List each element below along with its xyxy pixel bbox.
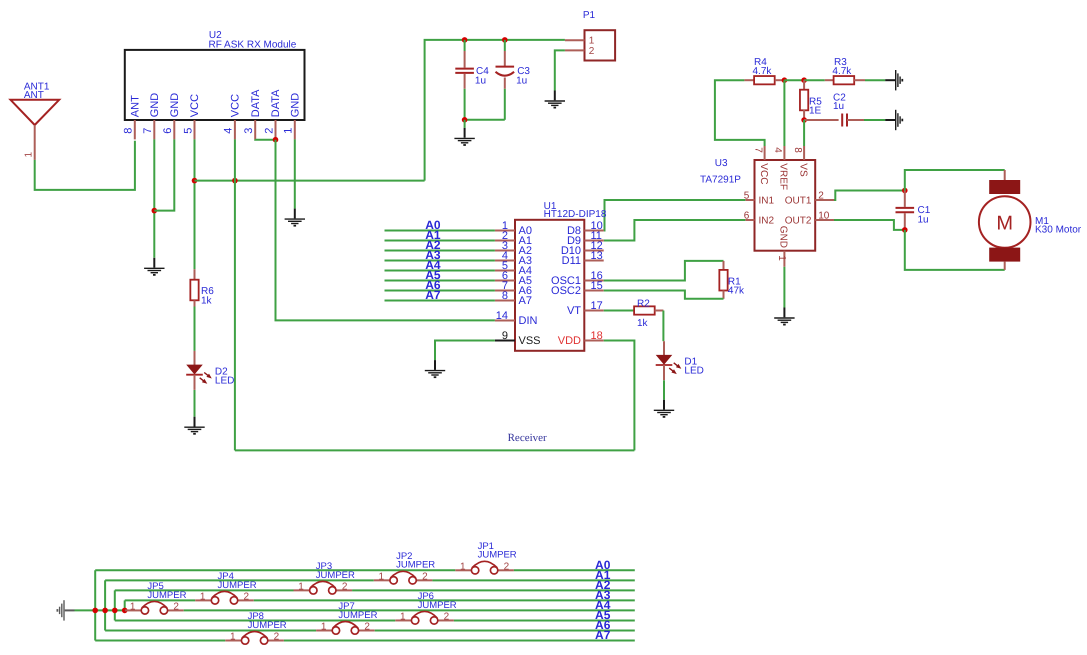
- U1 pin 3 A2: [495, 250, 515, 252]
- junction DATA: [273, 137, 279, 143]
- junction C4 top: [462, 37, 468, 43]
- svg-text:R2: R2: [637, 299, 650, 310]
- wire net A5 feed: [385, 280, 495, 282]
- svg-text:2: 2: [422, 571, 428, 582]
- wire left vertical A3-bus: [124, 600, 126, 610]
- U1 pin 2 A1: [495, 240, 515, 242]
- wire VCC rail: [195, 180, 425, 182]
- U1 pin 17 VT: [584, 310, 603, 312]
- U1 pin 6 A5: [495, 280, 515, 282]
- svg-text:VREF: VREF: [778, 163, 789, 190]
- wire C3 bottom to C4: [465, 119, 505, 121]
- svg-text:VS: VS: [797, 163, 808, 177]
- svg-text:13: 13: [591, 250, 603, 262]
- wire A4 right segment: [184, 609, 635, 611]
- svg-text:DATA: DATA: [270, 89, 282, 117]
- svg-text:JUMPER: JUMPER: [248, 620, 287, 631]
- svg-text:4: 4: [772, 147, 783, 153]
- svg-text:RF ASK RX Module: RF ASK RX Module: [209, 40, 297, 51]
- ground D1: [654, 400, 674, 417]
- wire jumper ground bus: [75, 609, 125, 611]
- U2 pin 3 DATA: [254, 120, 256, 139]
- wire VCC pin4 down: [234, 139, 236, 450]
- wire caps to ground: [464, 120, 466, 128]
- U1 pin 12 D10: [584, 250, 603, 252]
- wire A3 left segment: [125, 599, 196, 601]
- U3 pin 4 VREF (top): [783, 146, 785, 160]
- svg-text:JUMPER: JUMPER: [396, 560, 435, 571]
- svg-text:8: 8: [502, 290, 508, 302]
- ground jumper bus (left): [57, 600, 74, 620]
- svg-text:JUMPER: JUMPER: [147, 590, 186, 601]
- U1 pin 13 D11: [584, 260, 603, 262]
- resistor R2: [633, 310, 636, 312]
- junction pin7/pin6: [152, 208, 158, 214]
- svg-text:VCC: VCC: [758, 163, 769, 184]
- junction C3 top: [502, 37, 508, 43]
- resistor R1: [723, 261, 725, 270]
- wire A5 right segment: [454, 619, 635, 621]
- junction bus: [102, 608, 108, 614]
- svg-text:VCC: VCC: [230, 94, 242, 117]
- U3 pin 5 IN1: [745, 199, 754, 201]
- capacitor C2: [804, 119, 839, 121]
- ground D2: [184, 417, 204, 434]
- U1 pin 10 D8: [584, 230, 603, 232]
- U2 pin 8 ANT: [134, 120, 136, 139]
- svg-text:9: 9: [502, 330, 508, 342]
- U2 pin 4 VCC: [234, 120, 236, 139]
- U1 pin 14 DIN: [495, 320, 515, 322]
- connector P1 box: [585, 30, 616, 60]
- wire D9 to IN2: [604, 220, 746, 241]
- wire D2 to ground: [194, 390, 196, 417]
- U1 pin 11 D9: [584, 240, 603, 242]
- svg-text:OUT1: OUT1: [785, 196, 812, 207]
- svg-text:K30 Motor: K30 Motor: [1035, 225, 1082, 236]
- P1 pin 2: [565, 49, 585, 51]
- resistor R3: [825, 79, 834, 81]
- svg-text:10: 10: [818, 211, 830, 222]
- svg-text:ANT: ANT: [129, 95, 141, 117]
- svg-text:1u: 1u: [516, 75, 527, 86]
- U1 pin 16 OSC1: [584, 280, 603, 282]
- svg-text:D11: D11: [562, 255, 581, 267]
- resistor R6: [194, 269, 196, 280]
- svg-text:1: 1: [379, 571, 385, 582]
- svg-text:2: 2: [364, 621, 370, 632]
- svg-text:2: 2: [173, 601, 179, 612]
- svg-text:2: 2: [244, 591, 250, 602]
- svg-text:M: M: [996, 213, 1013, 235]
- svg-text:8: 8: [123, 128, 135, 134]
- wire A2 right segment: [352, 589, 635, 591]
- svg-text:14: 14: [496, 310, 508, 322]
- svg-text:1: 1: [130, 601, 136, 612]
- wire C1 top loop to motor: [905, 170, 1005, 191]
- svg-text:1: 1: [24, 152, 35, 158]
- U1 pin 5 A4: [495, 270, 515, 272]
- jumper JP6: [395, 619, 411, 621]
- wire net A0 feed: [385, 230, 495, 232]
- wire VCC riser: [715, 80, 765, 146]
- svg-text:5: 5: [182, 128, 194, 134]
- U1 pin 18 VDD: [584, 340, 603, 342]
- wire R3 to ground: [865, 79, 885, 81]
- jumper JP8: [225, 640, 241, 642]
- svg-text:IN1: IN1: [759, 196, 775, 207]
- U3 pin 8 VS (top): [803, 146, 805, 160]
- wire net A7 feed: [385, 300, 495, 302]
- svg-text:1: 1: [460, 561, 466, 572]
- wire A0 left segment: [95, 569, 455, 571]
- svg-text:2: 2: [263, 128, 275, 134]
- junction C1 bottom: [902, 227, 908, 233]
- wire net A6 feed: [385, 290, 495, 292]
- U3 pin 6 IN2: [745, 219, 754, 221]
- wire U2 pin1 GND down: [294, 139, 296, 208]
- wire A4 left segment: [124, 609, 126, 611]
- svg-text:1: 1: [589, 36, 595, 47]
- svg-text:VDD: VDD: [558, 335, 581, 347]
- svg-text:ANT: ANT: [24, 90, 44, 101]
- IC U2 RF ASK RX Module box: [125, 50, 305, 120]
- svg-text:Receiver: Receiver: [508, 432, 547, 444]
- IC U1 box: [515, 220, 584, 351]
- jumper JP1: [455, 569, 471, 571]
- svg-text:JUMPER: JUMPER: [218, 580, 257, 591]
- U3 pin 7 VCC (top): [764, 146, 766, 160]
- svg-text:1k: 1k: [637, 318, 649, 329]
- jumper JP2: [374, 579, 390, 581]
- wire OSC1 loop: [604, 261, 724, 281]
- svg-text:1: 1: [298, 581, 304, 592]
- svg-text:VT: VT: [567, 305, 581, 317]
- svg-text:2: 2: [444, 611, 450, 622]
- U1 pin 8 A7: [495, 300, 515, 302]
- motor M1: [1004, 170, 1006, 181]
- junction VCC pin5: [192, 178, 198, 184]
- wire U2 pin7 GND down: [153, 139, 155, 257]
- wire A5 left segment: [115, 619, 396, 621]
- wire rail R4-R3: [784, 79, 804, 81]
- wire VCC pin5 down: [194, 139, 196, 269]
- svg-text:TA7291P: TA7291P: [700, 174, 741, 185]
- ground right R3: [885, 70, 902, 90]
- svg-text:17: 17: [591, 300, 603, 312]
- svg-text:1: 1: [283, 128, 295, 134]
- U1 pin 9 VSS: [495, 340, 515, 342]
- jumper JP5: [125, 609, 141, 611]
- svg-text:1k: 1k: [201, 295, 213, 306]
- resistor R5: [803, 80, 805, 90]
- svg-text:LED: LED: [215, 375, 234, 386]
- wire top rail: [425, 40, 565, 181]
- wire VDD down to receiver: [604, 341, 635, 451]
- ground U2 pin1: [285, 209, 305, 226]
- U2 pin 7 GND: [153, 120, 155, 139]
- svg-text:1: 1: [776, 255, 787, 261]
- U1 pin 7 A6: [495, 290, 515, 292]
- svg-text:4: 4: [223, 128, 235, 134]
- svg-text:P1: P1: [583, 10, 596, 21]
- wire net A1 feed: [385, 240, 495, 242]
- svg-text:U3: U3: [715, 158, 728, 169]
- svg-text:4.7k: 4.7k: [832, 66, 852, 77]
- wire A1 left segment: [105, 579, 374, 581]
- svg-text:HT12D-DIP18: HT12D-DIP18: [544, 209, 607, 220]
- wire U3 GND down: [783, 267, 785, 308]
- wire C1 bottom to motor: [905, 230, 1005, 270]
- wire VS down: [803, 120, 805, 146]
- wire VT to R2: [604, 310, 634, 312]
- U1 pin 15 OSC2: [584, 290, 603, 292]
- wire OUT1 to C1 top: [834, 191, 905, 201]
- wire A2 left segment: [115, 589, 294, 591]
- ground U2 pin7: [144, 258, 164, 275]
- svg-text:6: 6: [162, 128, 174, 134]
- ground U3: [774, 308, 794, 325]
- junction bus: [92, 608, 98, 614]
- jumper JP3: [294, 589, 310, 591]
- ground P1: [545, 91, 565, 108]
- P1 pin 1: [565, 39, 585, 41]
- svg-text:JUMPER: JUMPER: [478, 550, 517, 561]
- wire A7 left segment: [95, 640, 225, 642]
- junction caps bottom: [462, 117, 468, 123]
- resistor R4: [744, 79, 754, 81]
- svg-text:1: 1: [321, 621, 327, 632]
- wire P1 pin2 to ground: [555, 50, 565, 90]
- U2 pin 5 VCC: [194, 120, 196, 139]
- U1 pin 4 A3: [495, 260, 515, 262]
- wire R6 to D2: [194, 307, 196, 351]
- svg-text:8: 8: [792, 147, 803, 153]
- wire antenna to U2 pin8: [35, 141, 135, 190]
- antenna ANT1: [11, 100, 60, 125]
- wire D8 to IN1: [604, 200, 746, 231]
- U1 pin 1 A0: [495, 230, 515, 232]
- svg-text:1: 1: [400, 611, 406, 622]
- svg-text:4.7k: 4.7k: [753, 66, 773, 77]
- svg-text:1u: 1u: [918, 215, 929, 226]
- svg-text:DATA: DATA: [250, 89, 262, 117]
- wire left vertical A2-A5: [114, 590, 116, 620]
- jumper JP4: [195, 599, 211, 601]
- svg-text:GND: GND: [289, 93, 301, 118]
- wire VREF down: [783, 80, 785, 146]
- U2 pin 1 GND: [294, 120, 296, 139]
- wire R2 to D1: [662, 311, 664, 342]
- wire A0 right segment: [514, 569, 635, 571]
- wire A1 right segment: [432, 579, 634, 581]
- svg-text:2: 2: [342, 581, 348, 592]
- svg-text:1E: 1E: [809, 105, 822, 116]
- wire net A4 feed: [385, 270, 495, 272]
- diode D2 LED: [194, 351, 196, 365]
- junction bus: [122, 608, 128, 614]
- svg-text:1: 1: [200, 591, 206, 602]
- svg-text:VCC: VCC: [189, 94, 201, 117]
- svg-text:LED: LED: [684, 366, 703, 377]
- jumper JP7: [316, 629, 332, 631]
- svg-text:3: 3: [243, 128, 255, 134]
- svg-text:DIN: DIN: [519, 315, 538, 327]
- capacitor C1: [904, 191, 906, 207]
- wire A3 right segment: [254, 599, 635, 601]
- svg-text:A7: A7: [519, 295, 532, 307]
- svg-text:GND: GND: [169, 93, 181, 118]
- wire OSC2 loop: [604, 291, 724, 299]
- svg-text:2: 2: [504, 561, 510, 572]
- wire U2 pin6 GND jog: [154, 139, 174, 210]
- wire A6 left segment: [105, 629, 316, 631]
- wire rail to R3: [804, 79, 825, 81]
- U3 pin 1 GND (bottom): [783, 251, 785, 267]
- svg-text:A7: A7: [425, 288, 441, 302]
- svg-text:OSC2: OSC2: [551, 285, 581, 297]
- wire net A2 feed: [385, 250, 495, 252]
- svg-text:JUMPER: JUMPER: [418, 600, 457, 611]
- junction VCC pin4: [232, 178, 238, 184]
- svg-text:JUMPER: JUMPER: [338, 610, 377, 621]
- wire left vertical A1-A6: [104, 580, 106, 630]
- svg-text:18: 18: [591, 330, 603, 342]
- wire left vertical A0-A7: [94, 570, 96, 640]
- U2 pin 2 DATA: [275, 120, 277, 139]
- capacitor C3: [504, 40, 506, 51]
- wire A7 right segment: [284, 640, 635, 642]
- svg-text:1: 1: [230, 632, 236, 643]
- wire receiver bottom: [235, 449, 635, 451]
- svg-text:VSS: VSS: [519, 335, 541, 347]
- junction C1 top: [902, 188, 908, 194]
- ground VSS: [425, 360, 445, 377]
- svg-text:2: 2: [818, 191, 824, 202]
- svg-text:47k: 47k: [728, 285, 745, 296]
- wire D1 to ground: [663, 380, 665, 400]
- svg-text:7: 7: [752, 147, 763, 153]
- IC U3 box: [755, 160, 816, 251]
- svg-text:GND: GND: [778, 226, 789, 248]
- svg-text:7: 7: [142, 128, 154, 134]
- wire DATA pin2 to DIN: [276, 140, 495, 321]
- wire OUT2 to C1 bottom: [834, 220, 905, 230]
- ground C4 C3: [454, 128, 474, 145]
- U3 pin 2 OUT1: [815, 199, 834, 201]
- svg-text:JUMPER: JUMPER: [316, 570, 355, 581]
- svg-text:A7: A7: [595, 628, 611, 642]
- U3 pin 10 OUT2: [815, 219, 834, 221]
- svg-text:GND: GND: [149, 93, 161, 118]
- junction VREF: [782, 77, 788, 83]
- diode D1 LED: [663, 341, 665, 355]
- capacitor C4: [464, 40, 466, 51]
- wire net A3 feed: [385, 260, 495, 262]
- junction R5 bottom: [801, 117, 807, 123]
- svg-text:IN2: IN2: [759, 216, 775, 227]
- ground right C2: [885, 110, 902, 130]
- svg-text:1u: 1u: [833, 101, 844, 112]
- svg-text:15: 15: [591, 280, 603, 292]
- svg-text:1u: 1u: [475, 75, 486, 86]
- junction bus: [112, 608, 118, 614]
- wire DATA pin3 link: [255, 138, 275, 140]
- wire A6 right segment: [375, 629, 635, 631]
- wire VSS to ground: [435, 341, 495, 361]
- svg-text:2: 2: [274, 632, 280, 643]
- svg-text:2: 2: [589, 46, 595, 57]
- junction R5 top: [801, 77, 807, 83]
- U2 pin 6 GND: [173, 120, 175, 139]
